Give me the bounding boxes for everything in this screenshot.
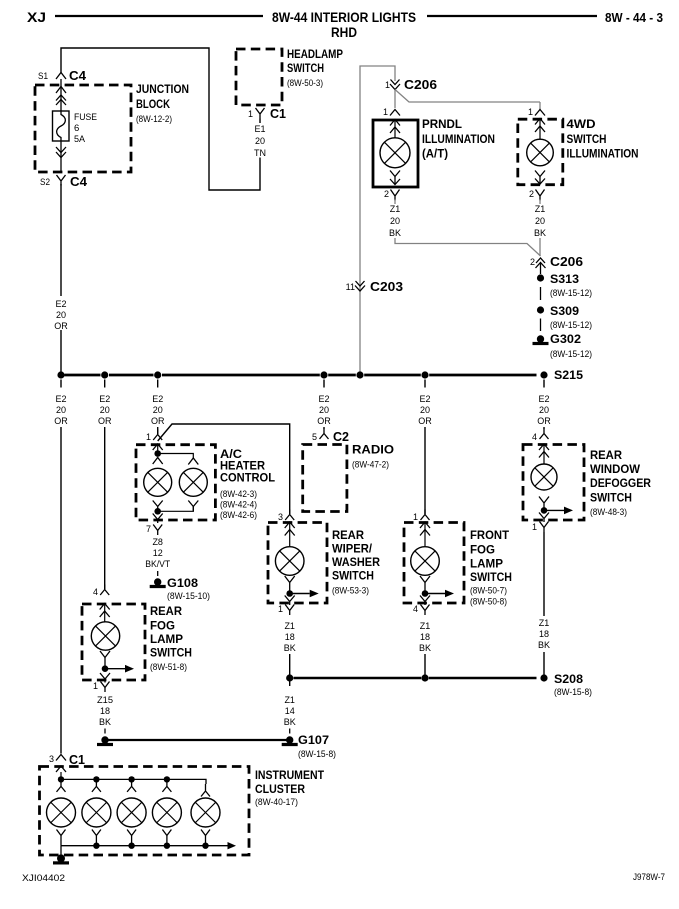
svg-text:(8W-15-12): (8W-15-12) [550, 288, 592, 299]
rear fog inner chevron [100, 604, 110, 622]
svg-text:SWITCH: SWITCH [470, 572, 512, 584]
wire E1 upper stub [259, 119, 261, 124]
A/C right lamp chevron [188, 458, 198, 465]
wire rear defogger upper [543, 532, 545, 616]
cluster ground wire [60, 846, 62, 857]
svg-text:CONTROL: CONTROL [220, 473, 275, 485]
connector C4 top label [69, 68, 87, 83]
front fog top edge chevron [420, 522, 430, 528]
rear wiper inner chevron [285, 523, 295, 547]
bulb PRNDL lamp [380, 138, 410, 168]
svg-text:12: 12 [153, 548, 163, 558]
bulb A/C lamp 1 [144, 468, 172, 496]
svg-text:14: 14 [285, 706, 295, 716]
svg-text:BK: BK [534, 228, 546, 238]
svg-text:20: 20 [56, 310, 66, 320]
pin 1 rear defogger [532, 522, 537, 532]
svg-text:(8W-50-8): (8W-50-8) [470, 597, 507, 608]
header page number 8W-44-3 [605, 11, 663, 25]
pin 11 C203 [346, 282, 355, 292]
svg-text:G108: G108 [167, 576, 198, 590]
svg-text:OR: OR [537, 416, 551, 426]
node S208 junction wiper [286, 674, 293, 681]
svg-text:20: 20 [255, 136, 265, 146]
svg-text:(A/T): (A/T) [422, 149, 448, 161]
wire gray PRNDL to C206 bottom [395, 200, 541, 257]
front fog bottom edge Y [420, 596, 430, 606]
svg-text:C1: C1 [69, 752, 85, 767]
cluster lamp 1 bottom Y [57, 830, 66, 846]
wire stub below S215 at x324 [323, 380, 325, 388]
connector C4 top symbol [56, 73, 66, 80]
svg-text:(8W-12-2): (8W-12-2) [136, 114, 172, 125]
svg-text:1: 1 [278, 604, 283, 614]
connector front fog bottom symbol [421, 605, 430, 616]
rear wiper switch arrow [290, 590, 319, 598]
node rear defogger switch contact [541, 507, 548, 514]
node cluster bottom junction 4 [202, 843, 208, 849]
svg-text:(8W-51-8): (8W-51-8) [150, 662, 187, 673]
svg-text:SWITCH: SWITCH [332, 571, 374, 583]
pin 2 C206 bottom [530, 257, 535, 267]
svg-text:1: 1 [528, 107, 533, 117]
cluster lamp 4 bottom Y [162, 830, 171, 846]
svg-text:S215: S215 [554, 368, 583, 382]
node S215 splice end [540, 371, 547, 378]
bulb front fog lamp [411, 547, 440, 576]
svg-text:C206: C206 [550, 254, 583, 269]
wire rear wiper to S208 [289, 654, 291, 675]
wire E2 to instrument cluster [60, 427, 62, 754]
svg-text:(8W-48-3): (8W-48-3) [590, 507, 627, 518]
pin 2 4WD [529, 189, 534, 199]
junction block top terminal chevron [56, 87, 66, 94]
pin 1 rear fog [93, 681, 98, 691]
svg-text:BK/VT: BK/VT [145, 559, 170, 569]
node S215 junction 1 [57, 371, 64, 378]
svg-text:BK: BK [389, 228, 401, 238]
wire headlamp feed [61, 48, 260, 190]
svg-text:FRONT: FRONT [470, 530, 509, 542]
pin 1 A/C [146, 432, 151, 442]
node A/C branch junction [154, 450, 161, 457]
wire label Z15 18 BK [97, 695, 113, 727]
connector C2 label [333, 429, 349, 444]
cluster lamp 2 bottom Y [92, 830, 101, 846]
rear fog lamp switch box [82, 604, 145, 680]
ground G107 [282, 733, 336, 760]
wire label Z1 18 BK (defogger) [538, 618, 550, 650]
label INSTRUMENT CLUSTER [255, 770, 324, 808]
ground rear fog [97, 736, 113, 744]
4WD connector symbol [535, 110, 545, 116]
rear defogger inner chevron [539, 445, 549, 464]
node cluster bottom junction 1 [93, 843, 99, 849]
label REAR FOG LAMP SWITCH [150, 606, 192, 673]
bulb rear defogger lamp [531, 464, 557, 490]
svg-text:E2: E2 [538, 394, 549, 404]
svg-text:FUSE: FUSE [74, 112, 97, 123]
svg-text:Z8: Z8 [152, 537, 163, 547]
connector rear fog symbol [100, 585, 109, 596]
svg-text:(8W-42-4): (8W-42-4) [220, 500, 257, 511]
svg-text:OR: OR [317, 416, 331, 426]
header rule left [55, 15, 263, 17]
svg-text:REAR: REAR [332, 530, 365, 542]
svg-text:BK: BK [99, 717, 111, 727]
svg-text:Z1: Z1 [390, 204, 401, 214]
instrument cluster box [40, 767, 250, 856]
svg-text:PRNDL: PRNDL [422, 119, 462, 131]
wire label Z8 12 BK/VT [145, 537, 170, 569]
svg-text:ILLUMINATION: ILLUMINATION [567, 149, 639, 161]
svg-text:SWITCH: SWITCH [590, 493, 632, 505]
bus wire S208 [294, 677, 537, 680]
svg-text:C2: C2 [333, 429, 349, 444]
front fog lamp switch box [404, 523, 464, 604]
cluster top edge chevron [56, 766, 66, 779]
pin 1 front fog [413, 512, 418, 522]
svg-text:18: 18 [539, 629, 549, 639]
PRNDL connector symbol [390, 110, 400, 116]
wire C206 to S313 [540, 263, 542, 274]
label REAR WIPER/WASHER SWITCH [332, 530, 381, 597]
svg-text:(8W-50-3): (8W-50-3) [287, 78, 323, 89]
wire gray 4WD to C206 bottom [539, 200, 541, 257]
svg-text:20: 20 [535, 216, 545, 226]
svg-text:(8W-42-3): (8W-42-3) [220, 489, 257, 500]
node S215 junction 3 [154, 371, 161, 378]
junction block box [35, 85, 131, 172]
bulb rear wiper lamp [275, 547, 304, 576]
svg-text:18: 18 [100, 706, 110, 716]
svg-text:BK: BK [538, 640, 550, 650]
wire into fuse [60, 79, 62, 111]
svg-text:DEFOGGER: DEFOGGER [590, 478, 652, 490]
cluster bottom bus arrow [228, 842, 237, 849]
node cluster junction 1 [58, 776, 64, 782]
svg-text:G302: G302 [550, 332, 581, 346]
node S208 junction front fog [421, 674, 428, 681]
svg-text:Z1: Z1 [284, 621, 295, 631]
connector C203 symbol [355, 281, 365, 291]
connector C1 headlamp label [270, 106, 286, 121]
svg-text:OR: OR [54, 416, 68, 426]
wire gray C206 to PRNDL [394, 90, 396, 109]
svg-text:20: 20 [100, 405, 110, 415]
footer code J978W-7 [633, 872, 665, 883]
bulb A/C lamp 2 [179, 468, 207, 496]
node cluster junction 3 [128, 776, 134, 782]
wire label E2 20 OR at x324 [317, 394, 331, 426]
svg-text:OR: OR [54, 321, 68, 331]
PRNDL bottom Y terminal [390, 171, 400, 185]
wire stub below S215 at x425 [424, 380, 426, 388]
connector front fog symbol [421, 510, 430, 521]
header title 8W-44 INTERIOR LIGHTS [272, 10, 416, 25]
A/C lamp 2 bottom Y [188, 501, 198, 512]
svg-text:WASHER: WASHER [332, 557, 381, 569]
4WD inner chevron [535, 119, 545, 139]
svg-text:C4: C4 [70, 174, 88, 189]
svg-text:E2: E2 [99, 394, 110, 404]
svg-text:2: 2 [384, 189, 389, 199]
splice S309 [537, 304, 592, 331]
svg-text:4WD: 4WD [567, 119, 596, 131]
bus wire G107 [105, 739, 290, 741]
PRNDL inner chevron [390, 120, 400, 138]
splice S208 label [554, 672, 592, 698]
bus wire S215 [65, 374, 537, 377]
ground G302 [533, 332, 593, 360]
bulb cluster lamp 2 [82, 798, 111, 827]
svg-text:OR: OR [151, 416, 165, 426]
pin 7 A/C [146, 524, 151, 534]
wire label E2 20 OR at x104 [98, 394, 112, 426]
cluster lamp 3 feed symbol [127, 779, 136, 792]
connector rear fog bottom symbol [101, 682, 110, 693]
radio box [303, 445, 347, 512]
svg-text:RADIO: RADIO [352, 445, 394, 457]
svg-text:E2: E2 [419, 394, 430, 404]
svg-text:S1: S1 [38, 71, 48, 81]
wire stub below S215 at x157 [157, 380, 159, 388]
svg-text:18: 18 [285, 632, 295, 642]
svg-text:OR: OR [418, 416, 432, 426]
svg-text:(8W-47-2): (8W-47-2) [352, 460, 389, 471]
wire dashed stub above G108 [157, 571, 159, 576]
connector A/C symbol [153, 430, 162, 441]
svg-text:1: 1 [532, 522, 537, 532]
pin S2 [40, 177, 50, 187]
rear fog bottom Y terminal [100, 651, 110, 669]
wire gray trunk from C206 to S215 [360, 66, 395, 372]
svg-text:REAR: REAR [590, 450, 623, 462]
svg-text:8W-44 INTERIOR LIGHTS: 8W-44 INTERIOR LIGHTS [272, 10, 416, 25]
svg-text:4: 4 [93, 587, 98, 597]
label RADIO [352, 445, 394, 471]
ground instrument cluster [53, 854, 69, 863]
wire E2 to rear defogger switch [543, 427, 545, 429]
svg-text:C206: C206 [404, 77, 437, 92]
svg-text:18: 18 [420, 632, 430, 642]
wire label E1 20 TN [254, 124, 266, 158]
cluster lamp 2 feed symbol [92, 779, 101, 792]
cluster lamp 5 feed symbol [201, 784, 210, 797]
svg-text:S313: S313 [550, 272, 579, 286]
svg-text:(8W-40-17): (8W-40-17) [255, 797, 298, 808]
connector C206 top label [404, 77, 437, 92]
wire label E2 20 OR at x544 [537, 394, 551, 426]
label A/C HEATER CONTROL [220, 449, 275, 521]
wire stub below S215 at x61 [60, 380, 62, 388]
label PRNDL ILLUMINATION (A/T) [422, 119, 495, 161]
svg-text:XJ: XJ [27, 9, 46, 25]
svg-text:JUNCTION: JUNCTION [136, 82, 189, 96]
wire branch to rear wiper switch [158, 424, 290, 514]
wire fuse to S2 [60, 141, 62, 172]
pin 3 instrument cluster [49, 754, 54, 764]
rear window defogger switch box [523, 445, 584, 521]
cluster lamp 3 bottom Y [127, 830, 136, 846]
svg-text:6: 6 [74, 123, 79, 134]
headlamp switch box [236, 49, 282, 105]
svg-text:2: 2 [530, 257, 535, 267]
node rear wiper switch contact [286, 590, 293, 597]
node S215 junction 4 [320, 371, 327, 378]
svg-text:A/C: A/C [220, 449, 242, 461]
node cluster junction 2 [93, 776, 99, 782]
node S208 splice end [540, 674, 547, 681]
svg-text:RHD: RHD [331, 25, 357, 40]
front fog switch arrow [425, 590, 454, 598]
wire front fog to S208 [424, 654, 426, 675]
cluster bottom bus wire [61, 845, 228, 847]
wire gray C206 to 4WD switch [395, 90, 540, 111]
svg-text:HEATER: HEATER [220, 461, 266, 473]
svg-text:1: 1 [146, 432, 151, 442]
junction block double chevron down [56, 147, 66, 158]
svg-text:BK: BK [284, 717, 296, 727]
cluster top bus wire [61, 779, 206, 784]
svg-text:LAMP: LAMP [150, 634, 183, 646]
header label XJ [27, 9, 46, 25]
svg-text:BK: BK [284, 643, 296, 653]
header subtitle RHD [331, 25, 357, 40]
wire dashed stub above G107 [289, 729, 291, 734]
wire label Z1 14 BK [284, 695, 296, 727]
svg-text:(8W-50-7): (8W-50-7) [470, 586, 507, 597]
connector C2 symbol [320, 429, 329, 440]
pin 4 rear fog [93, 587, 98, 597]
wire label Z1 18 BK (front fog) [419, 621, 431, 653]
svg-text:C1: C1 [270, 106, 286, 121]
svg-text:ILLUMINATION: ILLUMINATION [422, 134, 495, 146]
svg-text:1: 1 [248, 109, 253, 119]
4WD switch illumination box [518, 119, 563, 185]
front fog inner chevron [420, 523, 430, 547]
svg-text:4: 4 [413, 604, 418, 614]
connector C206 bottom label [550, 254, 583, 269]
svg-text:S2: S2 [40, 177, 50, 187]
pin 1 PRNDL [383, 107, 388, 117]
svg-text:INSTRUMENT: INSTRUMENT [255, 770, 324, 782]
svg-text:TN: TN [254, 148, 266, 158]
wire E2 to A/C heater control [157, 427, 159, 434]
svg-text:BK: BK [419, 643, 431, 653]
svg-text:(8W-53-3): (8W-53-3) [332, 586, 369, 597]
pin 1 rear wiper [278, 604, 283, 614]
node S215 junction 2 [101, 371, 108, 378]
node rear fog switch contact [102, 665, 109, 672]
wire label E2 20 OR at x157 [151, 394, 165, 426]
svg-text:FOG: FOG [150, 621, 175, 633]
front fog bottom Y terminal [420, 576, 430, 594]
svg-text:S208: S208 [554, 672, 583, 686]
svg-text:(8W-15-12): (8W-15-12) [550, 349, 592, 360]
rear defogger bottom edge Y [539, 513, 549, 523]
wire A/C inner bottom branch [158, 507, 194, 512]
rear wiper top edge chevron [285, 522, 295, 528]
PRNDL top edge chevron [390, 120, 400, 126]
pin S1 [38, 71, 48, 81]
wire E2 to radio [323, 427, 325, 429]
svg-text:CLUSTER: CLUSTER [255, 784, 306, 796]
pin 1 headlamp [248, 109, 253, 119]
wire label Z1 20 BK (4WD) [534, 204, 546, 238]
svg-text:FOG: FOG [470, 545, 495, 557]
svg-text:5A: 5A [74, 134, 86, 145]
rear fog top edge chevron [100, 604, 110, 610]
svg-text:1: 1 [93, 681, 98, 691]
node A/C bottom junction [154, 508, 161, 515]
wire stub below S215 at x544 [543, 380, 545, 388]
wire label E2 20 OR (upper left) [54, 299, 68, 331]
node cluster bottom junction 2 [128, 843, 134, 849]
svg-text:20: 20 [420, 405, 430, 415]
wire label Z1 20 BK (PRNDL) [389, 204, 401, 238]
svg-text:BLOCK: BLOCK [136, 97, 170, 111]
connector C1 cluster symbol [56, 755, 66, 761]
wire stub below S215 at x104 [104, 380, 106, 388]
rear wiper bottom Y terminal [285, 576, 295, 594]
bulb 4WD lamp [527, 139, 554, 166]
bulb cluster lamp 1 [47, 798, 76, 827]
footer diagram id XJI04402 [22, 873, 65, 884]
wire label Z1 18 BK (wiper) [284, 621, 296, 653]
node cluster junction 4 [164, 776, 170, 782]
cluster lamp 4 feed symbol [162, 779, 171, 792]
wire E2 to front fog lamp switch [424, 427, 426, 514]
wire rear defogger to S208 [543, 652, 545, 675]
svg-text:E2: E2 [55, 394, 66, 404]
splice S313 [537, 272, 592, 299]
junction block double chevron up [56, 95, 66, 105]
fuse value label [74, 112, 97, 145]
splice S215 label [554, 368, 583, 382]
svg-text:WIPER/: WIPER/ [332, 544, 373, 556]
svg-text:OR: OR [98, 416, 112, 426]
svg-text:20: 20 [153, 405, 163, 415]
cluster lamp 5 bottom Y [201, 830, 210, 846]
connector C206 top symbol [390, 80, 400, 90]
node S215 junction C203 feed [356, 371, 363, 378]
label JUNCTION BLOCK [136, 82, 189, 125]
bulb cluster lamp 5 [191, 798, 220, 827]
svg-text:E2: E2 [318, 394, 329, 404]
svg-text:(8W-15-8): (8W-15-8) [298, 749, 336, 760]
wire S309 to G302 dashed [540, 319, 542, 332]
svg-text:2: 2 [529, 189, 534, 199]
label 4WD SWITCH ILLUMINATION [567, 119, 639, 161]
pin 5 radio [312, 432, 317, 442]
svg-text:E1: E1 [254, 124, 265, 134]
bulb cluster lamp 4 [152, 798, 181, 827]
svg-text:Z1: Z1 [284, 695, 295, 705]
svg-text:SWITCH: SWITCH [567, 134, 607, 146]
connector rear wiper bottom symbol [285, 605, 294, 616]
A/C heater control box [136, 445, 215, 520]
svg-text:WINDOW: WINDOW [590, 464, 640, 476]
connector C206 bottom symbol [536, 258, 546, 268]
rear fog switch arrow [105, 665, 134, 673]
svg-text:SWITCH: SWITCH [150, 648, 192, 660]
A/C top edge chevron [153, 444, 163, 454]
svg-text:E2: E2 [152, 394, 163, 404]
node S215 junction 5 [421, 371, 428, 378]
svg-text:S309: S309 [550, 304, 579, 318]
header rule right [427, 15, 597, 17]
